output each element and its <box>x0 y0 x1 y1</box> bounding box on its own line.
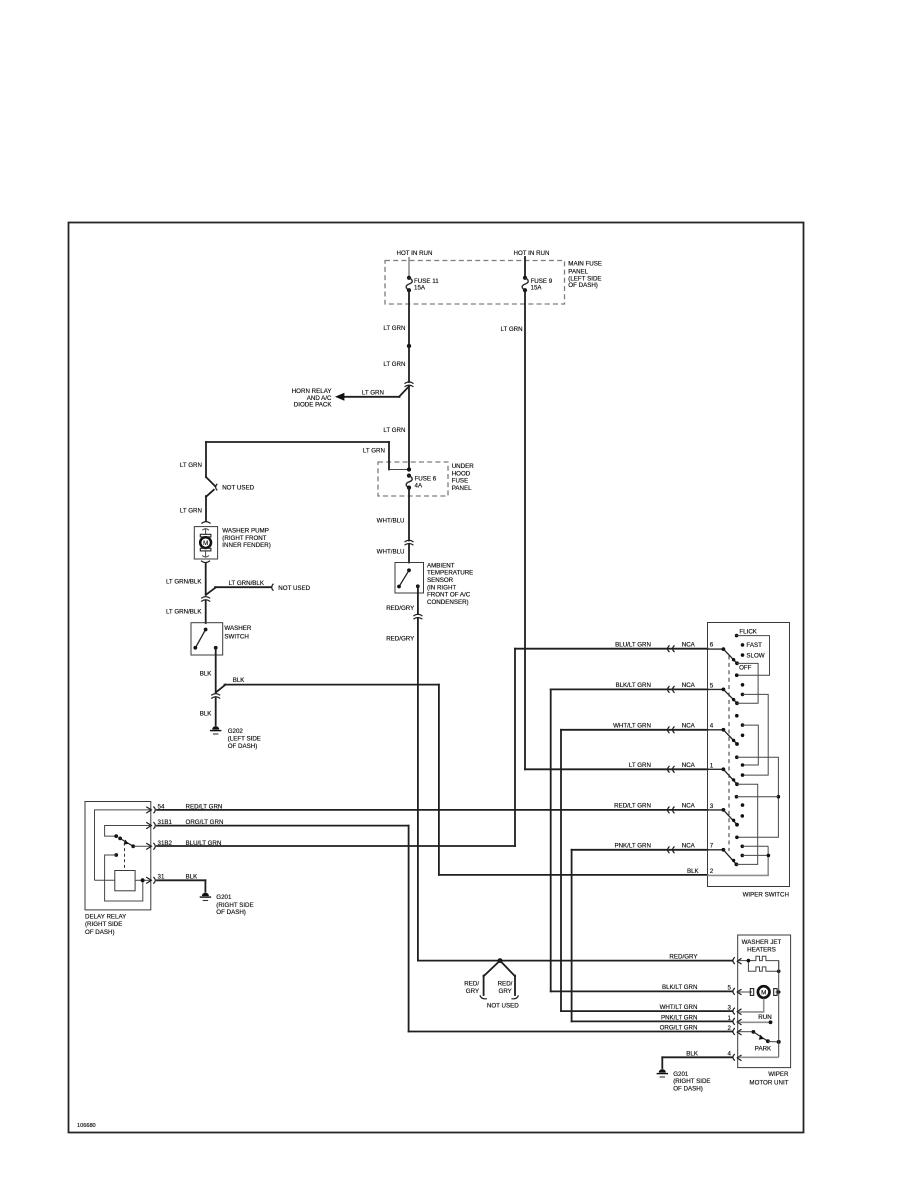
ambient temperature sensor box <box>395 563 424 594</box>
arrow to horn relay <box>335 393 344 401</box>
svg-text:3: 3 <box>728 1005 732 1012</box>
delay relay label <box>85 914 126 936</box>
svg-text:LT GRN/BLK: LT GRN/BLK <box>166 609 202 616</box>
labels NCA <box>682 641 696 849</box>
svg-text:RUN: RUN <box>758 1014 771 1021</box>
svg-text:LT GRN: LT GRN <box>363 448 385 455</box>
svg-text:NCA: NCA <box>682 641 696 648</box>
splice node <box>407 344 411 348</box>
isolated contact dot <box>741 734 745 738</box>
svg-text:M: M <box>203 540 208 547</box>
node splice at fuse 6 <box>407 467 411 471</box>
svg-text:(RIGHT SIDE: (RIGHT SIDE <box>673 1078 710 1085</box>
svg-text:WHT/LT GRN: WHT/LT GRN <box>613 722 651 729</box>
svg-text:HOT IN RUN: HOT IN RUN <box>514 250 550 257</box>
not used tap <box>206 477 215 497</box>
wire LT GRN fuse 11 down to splice <box>408 290 410 346</box>
washer jet heater resistors <box>739 956 779 971</box>
svg-text:INNER FENDER): INNER FENDER) <box>222 542 270 549</box>
svg-text:LT GRN: LT GRN <box>383 427 405 434</box>
svg-text:OFF: OFF <box>739 665 752 672</box>
wire WHT/LT GRN wiper switch pin 4 to wiper motor pin 3 <box>561 730 733 1011</box>
contact row5 to row1 bus <box>741 693 769 777</box>
svg-text:G201: G201 <box>216 894 232 901</box>
svg-text:RED/LT GRN: RED/LT GRN <box>614 803 651 810</box>
ground G202 <box>210 726 221 734</box>
wiper switch dashed detent line <box>728 656 730 852</box>
svg-text:BLK/LT GRN: BLK/LT GRN <box>615 682 651 689</box>
svg-text:PANEL: PANEL <box>452 485 472 492</box>
isolated contact dot row5 <box>741 683 745 687</box>
svg-text:SLOW: SLOW <box>746 652 764 659</box>
svg-text:WHT/LT GRN: WHT/LT GRN <box>660 1004 698 1011</box>
svg-text:BLU/LT GRN: BLU/LT GRN <box>615 641 651 648</box>
svg-text:SENSOR: SENSOR <box>427 577 454 584</box>
svg-text:SWITCH: SWITCH <box>224 634 248 641</box>
svg-text:6: 6 <box>710 642 714 649</box>
svg-text:54: 54 <box>158 803 165 810</box>
connector not used <box>216 484 218 491</box>
svg-text:WASHER JET: WASHER JET <box>742 939 782 946</box>
svg-text:BLK: BLK <box>200 671 213 678</box>
wire branch to horn relay <box>342 386 410 397</box>
svg-text:G202: G202 <box>228 728 244 735</box>
svg-text:DELAY RELAY: DELAY RELAY <box>85 914 126 921</box>
svg-text:WASHER: WASHER <box>224 625 251 632</box>
run contact <box>739 1014 772 1024</box>
washer jet heaters label <box>742 939 782 953</box>
wire BLK/LT GRN wiper switch pin 5 to wiper motor pin 5 <box>551 689 733 991</box>
inline connector (WHT/BLU) <box>405 540 414 545</box>
svg-text:NCA: NCA <box>682 722 696 729</box>
under hood fuse panel dashed box <box>378 462 448 496</box>
node pin31 junction <box>141 878 145 882</box>
svg-text:WIPER: WIPER <box>768 1071 789 1078</box>
delay relay internal: pin 31B1 to pivot <box>105 826 151 837</box>
switch arm row 4 <box>722 728 739 746</box>
connector not used <box>272 584 274 591</box>
svg-text:GRY: GRY <box>466 988 479 995</box>
svg-text:M: M <box>761 990 766 997</box>
connector not used (right stub) <box>511 995 518 999</box>
delay relay timer coil box <box>115 871 135 891</box>
inline connectors at switch rows <box>668 645 675 853</box>
wiper motor unit label <box>749 1071 789 1086</box>
svg-text:G201: G201 <box>673 1071 689 1078</box>
row7 contacts to pin2 bus <box>741 845 771 858</box>
svg-text:2: 2 <box>728 1025 732 1032</box>
svg-text:OF DASH): OF DASH) <box>673 1085 703 1092</box>
svg-text:BLK/LT GRN: BLK/LT GRN <box>662 984 698 991</box>
svg-text:2: 2 <box>710 868 714 875</box>
svg-text:MOTOR UNIT: MOTOR UNIT <box>749 1080 788 1087</box>
svg-text:4: 4 <box>710 723 714 730</box>
off contact bus (row6 arm to row5 arm) <box>737 663 758 703</box>
wire BLK below washer switch <box>215 648 217 693</box>
wiper switch pin leads <box>708 649 724 850</box>
wire LT GRN/BLK below pump <box>205 564 207 595</box>
ground G201 (motor) label <box>673 1071 710 1093</box>
svg-text:5: 5 <box>728 985 732 992</box>
svg-text:TEMPERATURE: TEMPERATURE <box>427 570 473 577</box>
svg-text:RED/GRY: RED/GRY <box>386 605 414 612</box>
svg-text:PARK: PARK <box>755 1046 772 1053</box>
ambient temperature sensor switch <box>397 568 420 588</box>
under hood fuse panel label <box>452 463 475 492</box>
delay relay wire labels <box>186 803 224 880</box>
svg-text:RED/: RED/ <box>464 981 479 988</box>
svg-text:(RIGHT FRONT: (RIGHT FRONT <box>222 535 266 542</box>
svg-text:GRY: GRY <box>499 988 512 995</box>
labels RED/GRY stubs <box>464 981 512 996</box>
svg-text:LT GRN/BLK: LT GRN/BLK <box>228 580 264 587</box>
switch arm row 1 <box>722 767 739 786</box>
flick contact loop <box>735 634 770 677</box>
svg-text:OF DASH): OF DASH) <box>228 743 258 750</box>
contact link row1 area <box>735 795 779 799</box>
pin connectors at motor unit <box>733 957 742 1061</box>
svg-text:RED/: RED/ <box>498 981 513 988</box>
ground G202 label <box>228 728 261 750</box>
switch arm row 3 <box>722 808 739 827</box>
isolated contact dot <box>735 714 739 718</box>
svg-text:BLU/LT GRN: BLU/LT GRN <box>186 840 222 847</box>
svg-text:31B2: 31B2 <box>158 840 173 847</box>
svg-text:HOT IN RUN: HOT IN RUN <box>397 250 433 257</box>
fuse 6 4A <box>406 474 437 490</box>
washer switch box <box>191 623 223 655</box>
contact bus to park circuit <box>735 755 780 839</box>
svg-text:RED/LT GRN: RED/LT GRN <box>186 803 223 810</box>
park switch arm <box>739 1030 781 1053</box>
inline connector C100 <box>405 382 414 387</box>
pin numbers wiper switch <box>710 642 714 876</box>
washer pump internal arrow (bottom) <box>202 551 209 557</box>
svg-text:LT GRN: LT GRN <box>362 389 384 396</box>
svg-text:PNK/LT GRN: PNK/LT GRN <box>614 842 651 849</box>
svg-text:NCA: NCA <box>682 803 696 810</box>
svg-text:3: 3 <box>710 803 714 810</box>
washer pump internal arrow (top) <box>202 529 209 535</box>
wiper motor M2 <box>739 986 781 998</box>
svg-text:ORG/LT GRN: ORG/LT GRN <box>186 819 224 826</box>
wire BLK delay relay pin 31 to ground G201 <box>157 880 205 891</box>
wiper motor unit box <box>738 935 791 1068</box>
svg-text:NOT USED: NOT USED <box>222 485 254 492</box>
border frame <box>69 223 804 1133</box>
delay relay coil to pin 31 <box>95 879 151 881</box>
svg-text:BLK: BLK <box>200 710 213 717</box>
wiper switch pin 2 lead to ground bus <box>708 846 769 875</box>
branch to not used (LT GRN/BLK) <box>206 587 271 595</box>
switch arm row 7 <box>722 848 739 866</box>
svg-text:(RIGHT SIDE: (RIGHT SIDE <box>216 902 253 909</box>
wire branch tap into fuse 6 <box>389 469 409 471</box>
svg-text:HORN RELAY: HORN RELAY <box>292 388 332 395</box>
wire RED/GRY below sensor <box>417 586 419 614</box>
wire PNK/LT GRN wiper switch pin 7 to wiper motor pin 1 <box>572 850 733 1022</box>
wire BLK motor pin 4 to ground G201 <box>662 1057 732 1068</box>
washer pump box <box>194 527 217 559</box>
pin 4 lead <box>739 1056 779 1058</box>
svg-text:OF DASH): OF DASH) <box>568 282 598 289</box>
svg-text:OF DASH): OF DASH) <box>216 909 246 916</box>
svg-text:31: 31 <box>158 873 165 880</box>
ground G201 (relay) label <box>216 894 253 916</box>
connector below washer pump <box>201 561 210 563</box>
svg-text:OF DASH): OF DASH) <box>85 929 115 936</box>
delay relay box <box>85 802 151 910</box>
delay relay dashed link <box>124 843 126 871</box>
svg-text:FLICK: FLICK <box>739 629 757 636</box>
svg-text:WASHER PUMP: WASHER PUMP <box>222 528 269 535</box>
svg-text:1: 1 <box>728 1015 732 1022</box>
motor internal ground bus <box>778 961 780 1058</box>
svg-text:31B1: 31B1 <box>158 819 173 826</box>
inline connector (RED/GRY) <box>413 614 422 619</box>
connector at washer pump <box>202 522 211 524</box>
wire washer pump branch (LT GRN) <box>206 442 389 470</box>
svg-text:FAST: FAST <box>746 642 762 649</box>
isolated contact dots row3 <box>741 803 745 807</box>
svg-text:1: 1 <box>710 762 714 769</box>
pin numbers motor unit <box>728 985 732 1058</box>
svg-text:(LEFT SIDE: (LEFT SIDE <box>228 736 261 743</box>
svg-text:FUSE: FUSE <box>452 478 469 485</box>
svg-text:UNDER: UNDER <box>452 463 475 470</box>
svg-text:BLK: BLK <box>186 873 199 880</box>
fast/slow contact dots <box>741 643 745 647</box>
wire RED/LT GRN delay relay 54 to wiper switch pin 3 <box>157 809 708 811</box>
switch arm row 6 <box>722 647 739 665</box>
wire hot-in-run to fuse 9 <box>524 257 526 277</box>
washer pump label <box>222 528 270 550</box>
svg-text:LT GRN: LT GRN <box>629 762 651 769</box>
wire RED/GRY long run to wiper motor unit <box>418 619 733 961</box>
svg-text:15A: 15A <box>414 285 426 292</box>
fuse 9 15A <box>522 276 553 293</box>
svg-text:NCA: NCA <box>682 682 696 689</box>
main fuse panel label <box>568 260 602 289</box>
washer pump motor M1 <box>200 534 211 551</box>
svg-text:RED/GRY: RED/GRY <box>669 954 697 961</box>
wiper switch box <box>708 623 790 887</box>
svg-text:AMBIENT: AMBIENT <box>427 563 455 570</box>
fuse 11 15A <box>406 276 439 293</box>
svg-text:ORG/LT GRN: ORG/LT GRN <box>660 1025 698 1032</box>
ambient temperature sensor label <box>427 563 473 607</box>
svg-text:(IN RIGHT: (IN RIGHT <box>427 584 456 591</box>
svg-text:5: 5 <box>710 682 714 689</box>
svg-text:NCA: NCA <box>682 762 696 769</box>
horn relay and a/c diode pack label <box>292 388 333 409</box>
svg-text:4A: 4A <box>415 482 423 489</box>
washer switch label <box>224 625 251 641</box>
inline connector (washer switch feed) <box>201 597 210 602</box>
contact row4 bus <box>741 723 759 767</box>
svg-text:NCA: NCA <box>682 842 696 849</box>
wire BLK to ground G202 <box>215 698 217 725</box>
svg-text:PNK/LT GRN: PNK/LT GRN <box>661 1014 698 1021</box>
wire WHT/BLU below fuse 6 <box>408 488 410 541</box>
svg-text:HEATERS: HEATERS <box>747 947 776 954</box>
wire ORG/LT GRN delay relay 31B1 to wiper motor pin 2 <box>157 826 733 1032</box>
svg-text:CONDENSER): CONDENSER) <box>427 599 469 606</box>
wire BLU/LT GRN wiper switch pin 6 to delay relay 31B2 <box>157 649 708 846</box>
svg-text:FRONT OF A/C: FRONT OF A/C <box>427 592 471 599</box>
svg-text:WHT/BLU: WHT/BLU <box>377 548 405 555</box>
svg-text:WIPER SWITCH: WIPER SWITCH <box>743 891 789 898</box>
svg-text:NOT USED: NOT USED <box>487 1003 519 1010</box>
svg-text:7: 7 <box>710 843 714 850</box>
svg-text:LT GRN: LT GRN <box>180 508 202 515</box>
svg-text:MAIN FUSE: MAIN FUSE <box>568 260 602 267</box>
delay relay pin labels <box>158 803 173 880</box>
svg-text:LT GRN: LT GRN <box>180 462 202 469</box>
svg-text:LT GRN: LT GRN <box>383 361 405 368</box>
svg-text:LT GRN: LT GRN <box>383 325 405 332</box>
delay relay pin symbols <box>146 807 155 884</box>
svg-text:DIODE PACK: DIODE PACK <box>294 402 333 409</box>
wire LT GRN to washer pump <box>205 496 207 521</box>
wire hot-in-run to fuse 11 <box>408 257 410 277</box>
splice node red/gry <box>498 958 503 963</box>
delay relay switch arm <box>114 834 151 848</box>
svg-text:NOT USED: NOT USED <box>278 585 310 592</box>
svg-text:BLK: BLK <box>686 1051 699 1058</box>
svg-text:PANEL: PANEL <box>568 268 588 275</box>
wire LT GRN splice to connector <box>408 346 410 382</box>
svg-text:15A: 15A <box>531 285 543 292</box>
svg-text:RED/GRY: RED/GRY <box>386 635 414 642</box>
stub RED/GRY not used (right) <box>500 961 515 995</box>
delay relay internal: pin54 rail <box>95 810 151 880</box>
wire to horn relay branch point <box>408 386 410 470</box>
svg-text:WHT/BLU: WHT/BLU <box>377 517 405 524</box>
svg-text:(RIGHT SIDE: (RIGHT SIDE <box>85 921 122 928</box>
svg-text:HOOD: HOOD <box>452 470 471 477</box>
main fuse panel dashed box <box>385 261 565 305</box>
inline connector (ground lead) <box>211 694 220 699</box>
delay relay lower contact loop <box>105 853 143 901</box>
wire LT GRN down to not-used tap (washer pump branch) <box>205 442 207 477</box>
labels FLICK FAST SLOW OFF <box>739 629 765 672</box>
connector not used (left stub) <box>480 995 487 999</box>
svg-text:106680: 106680 <box>77 1123 96 1129</box>
svg-text:BLK: BLK <box>233 677 246 684</box>
washer switch SW1 <box>193 628 217 650</box>
ground G201 (motor) <box>657 1069 668 1077</box>
wire BLK branch to wiper switch pin 2 <box>216 685 708 875</box>
wire WHT/BLU to ambient sensor <box>408 545 410 563</box>
wire LT GRN/BLK to washer switch <box>205 601 207 623</box>
heater splice nodes <box>747 959 751 963</box>
motor to pin 3 link <box>739 999 764 1012</box>
svg-text:LT GRN/BLK: LT GRN/BLK <box>166 578 202 585</box>
wire LT GRN fuse 9 to wiper switch pin 1 <box>525 290 708 769</box>
svg-text:BLK: BLK <box>687 868 700 875</box>
svg-text:LT GRN: LT GRN <box>500 326 522 333</box>
ground G201 (relay) <box>200 893 211 901</box>
switch arm row 5 <box>722 688 739 706</box>
row1 arm to row7 arm bus <box>736 784 757 864</box>
stub RED/GRY not used (left) <box>484 961 500 995</box>
